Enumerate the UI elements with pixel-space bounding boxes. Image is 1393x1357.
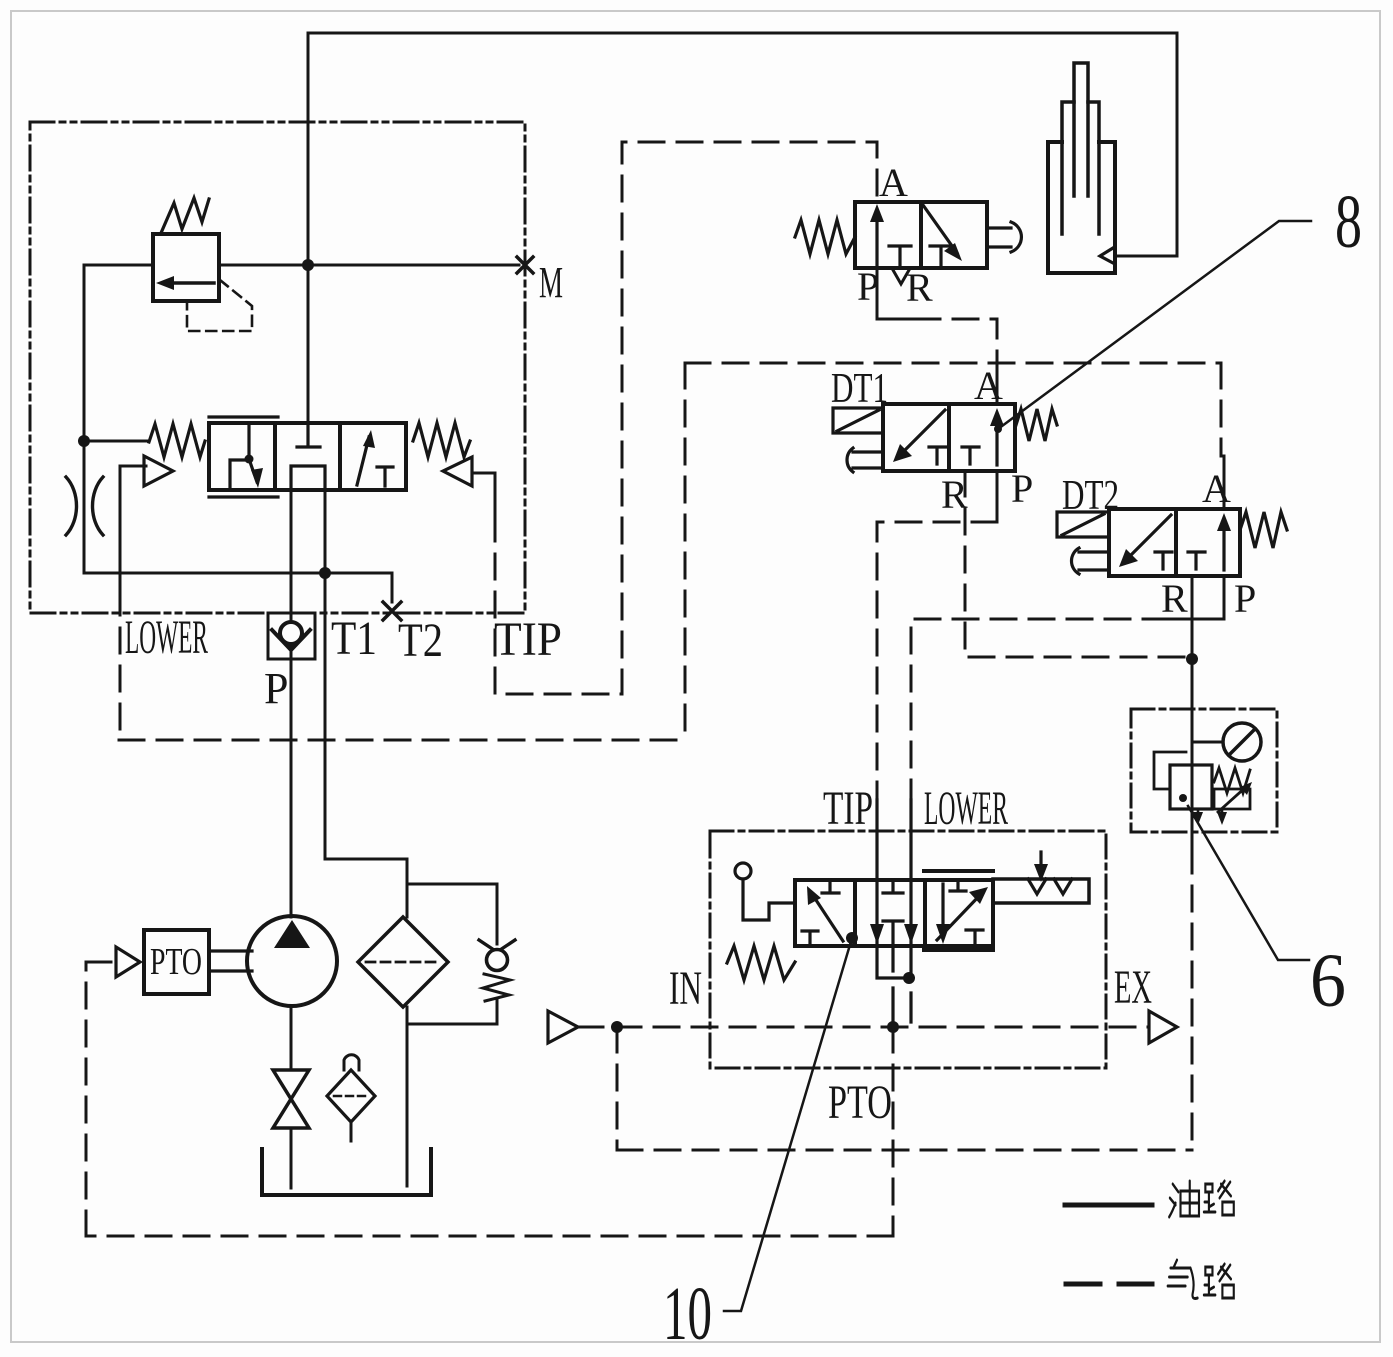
node junction T1 header (319, 567, 331, 579)
wire: leader line of label 10 (724, 938, 852, 1311)
valve 10 detent notches (1028, 879, 1072, 894)
DT1 manual override button (847, 448, 883, 472)
legend solid oil-line sample (1065, 1203, 1152, 1208)
hand valve 8 body (855, 202, 987, 268)
svg-text:A: A (1202, 466, 1231, 511)
gas line: relief valve pilot loop (187, 280, 252, 331)
valve 10 body (795, 880, 993, 946)
gas line: DT1 big dashed box left edge (684, 363, 687, 740)
svg-text:M: M (539, 258, 563, 307)
pump outlet triangle (274, 920, 310, 948)
DT1 return spring (1016, 409, 1057, 441)
wire: leader line of label 6 (1188, 806, 1309, 960)
relief valve internal arrow (170, 281, 214, 285)
gas line: DT1 big dashed box right edge (1220, 363, 1223, 456)
svg-text:PTO: PTO (828, 1076, 892, 1129)
breather diamond (327, 1070, 375, 1122)
DT1 P port stub (996, 471, 999, 522)
valve 10 return spring (727, 946, 795, 980)
svg-text:R: R (906, 265, 933, 310)
needle plug T2 cross (383, 602, 401, 620)
main valve position underline (209, 495, 278, 498)
breather dashed line (334, 1095, 368, 1098)
node leader-10 dot (846, 932, 858, 944)
cylinder port arrow (1100, 248, 1113, 263)
node junction PTO air (887, 1021, 899, 1033)
main valve right section blocked T (377, 467, 393, 486)
boundary: oil unit dash-dot box (30, 122, 525, 613)
wire: LOWER pilot solid part (120, 466, 146, 590)
relief valve body (153, 234, 219, 301)
valve 10 down arrow on TIP line (870, 924, 884, 944)
regulator 6 gauge branch line (1192, 741, 1223, 744)
solenoid valve DT2 body (1109, 509, 1240, 576)
valve 10 port drops to junction (877, 946, 911, 978)
check valve P seat (272, 630, 310, 650)
node regulator small dot (1179, 794, 1187, 802)
test point M cross (517, 257, 533, 273)
svg-text:DT2: DT2 (1062, 473, 1119, 519)
regulator 6 through line (1191, 604, 1194, 848)
valve 10 center port stub (891, 946, 894, 971)
DT2 left box diagonal arrow (1126, 515, 1171, 560)
wire: return header to T1 and T2 (84, 573, 392, 602)
DT1 blocked T marks (929, 447, 979, 464)
valve 10 detent extension (993, 879, 1089, 903)
main valve left section spool paths (230, 424, 257, 489)
regulator 6 valve body (1170, 765, 1212, 809)
check valve P body (268, 613, 315, 659)
node junction left drop / spring line (78, 435, 90, 447)
valve 10 right section diagonal arrow (937, 894, 981, 940)
hand valve flow arrow A-P (875, 214, 878, 266)
wire: main pressure riser into valve center (307, 33, 310, 423)
hand valve push button actuator (987, 222, 1021, 252)
quick coupler on left return line (66, 477, 103, 535)
wire: filter bottom to tank (406, 1007, 409, 1186)
hand valve right box diagonal arrow (923, 205, 957, 253)
wire: left return drop line (83, 265, 86, 573)
svg-text:R: R (941, 472, 968, 517)
valve 10 position bar top (924, 869, 993, 873)
svg-text:TIP: TIP (823, 782, 873, 835)
DT2 A port line up (1223, 456, 1226, 509)
gas line: TIP pilot dashed to riser (495, 142, 877, 694)
DT1 left box diagonal arrow (900, 410, 945, 455)
hand valve return spring (795, 220, 855, 254)
main valve center section chamber (291, 466, 325, 490)
svg-text:P: P (264, 664, 288, 713)
pump drive shaft (209, 951, 252, 971)
regulator 6 adjust box with arrow (1214, 789, 1250, 809)
main valve center section blocked T (297, 423, 320, 447)
node junction IN (611, 1021, 623, 1033)
valve 10 right section down arrow (941, 884, 944, 928)
hand valve P port stub (877, 268, 917, 319)
node valve10 port junction (903, 972, 915, 984)
wire: filter bypass to check valve (407, 884, 497, 1024)
node junction DT2-R / regulator (1186, 653, 1198, 665)
svg-text:10: 10 (663, 1272, 712, 1356)
svg-text:R: R (1161, 576, 1188, 621)
DT2 manual override button (1071, 548, 1109, 574)
main directional valve body (209, 423, 406, 490)
svg-text:A: A (974, 363, 1003, 408)
gas line: DT1 R port line (965, 471, 1185, 657)
svg-text:LOWER: LOWER (125, 611, 208, 664)
valve 10 position bar bottom (924, 948, 993, 952)
main valve position overline (209, 415, 278, 418)
valve 10 left section T marks (802, 880, 839, 946)
regulator 6 gauge circle with slash (1223, 723, 1261, 761)
wire: top oil line from main valve to cylinder (308, 33, 1177, 256)
valve 10 lever knob (735, 863, 751, 879)
wire: pump suction to shutoff valve to tank (290, 1007, 293, 1188)
bypass check valve seat (479, 940, 515, 952)
svg-text:6: 6 (1310, 939, 1346, 1023)
hand valve blocked T left box (889, 246, 911, 266)
svg-text:IN: IN (669, 962, 702, 1015)
gas line: PTO air line down and left (86, 962, 893, 1236)
filter mesh dashed line (366, 961, 440, 964)
svg-text:8: 8 (1335, 180, 1362, 264)
telescopic cylinder outer barrel (1048, 142, 1115, 273)
telescopic cylinder rod (1074, 63, 1088, 196)
svg-text:P: P (1234, 576, 1256, 621)
valve 10 down arrow on LOWER line (904, 924, 918, 944)
wire: relief valve left port (84, 264, 153, 267)
gas line: bottom air header (617, 1149, 1192, 1152)
PTO input box (144, 930, 209, 994)
DT2 P port stub (1168, 576, 1224, 619)
tank (262, 1149, 431, 1195)
DT1 solenoid box (833, 408, 883, 433)
gas line: IN to EX air line through valve 10 (578, 1026, 1149, 1029)
svg-text:EX: EX (1114, 961, 1152, 1014)
valve 10 left section arrow (812, 894, 843, 941)
legend glyphs 气路 (gas line) (1168, 1260, 1234, 1299)
main valve right pilot triangle (443, 457, 472, 486)
wire: TIP pilot solid part (472, 473, 495, 516)
hand valve exhaust vee (893, 270, 909, 284)
pump circle (247, 916, 337, 1006)
svg-text:P: P (1011, 466, 1033, 511)
regulator 6 drain arrows (1198, 809, 1222, 816)
gas line: DT2 P port to valve10 LOWER riser (911, 619, 1168, 800)
DT1 A flow arrow (995, 418, 998, 465)
regulator 6 pilot step line (1154, 752, 1186, 789)
gas line: regulator 6 down to bottom air header (1191, 848, 1194, 1150)
wire: T1 line valve to filter (325, 490, 407, 917)
DT2 solenoid box (1057, 512, 1109, 537)
EX outlet triangle (1149, 1011, 1177, 1043)
gas line: DT1 big dashed box bottom edge to LOWER box (119, 739, 685, 742)
gas line: IN junction down leg (616, 1027, 619, 1150)
node leader-8 dot (994, 425, 1002, 433)
svg-text:T1: T1 (331, 612, 377, 665)
valve 10 LOWER through line (909, 800, 912, 946)
valve 10 center section H ports (883, 880, 903, 946)
DT2 blocked T marks (1155, 552, 1205, 569)
gas line: LOWER pilot dashed continuation (119, 590, 122, 740)
gas line: hand valve P to DT1 A (877, 319, 997, 404)
svg-text:TIP: TIP (494, 613, 562, 666)
valve 10 right section T marks (950, 880, 983, 946)
valve 10 lever linkage (743, 879, 793, 920)
shutoff valve bowtie (273, 1070, 309, 1099)
valve 10 port links to PTO air junction (893, 988, 911, 1027)
bypass check valve spring (483, 974, 510, 1001)
bypass check valve ball (487, 950, 508, 971)
svg-text:T2: T2 (398, 614, 443, 667)
svg-text:LOWER: LOWER (924, 782, 1008, 835)
wire: leader line of label 8 (998, 221, 1311, 429)
regulator 6 spring (1214, 768, 1250, 793)
breather cap (344, 1055, 359, 1070)
IN inlet triangle (548, 1011, 578, 1043)
wire: relief valve outlet to M test point (219, 264, 519, 267)
main valve left pilot triangle (144, 456, 173, 486)
main valve right section spool arrow (357, 437, 369, 485)
valve 10 TIP through line (875, 800, 878, 946)
check valve P ball (280, 622, 302, 644)
svg-text:P: P (857, 264, 879, 309)
gas line: DT1 P port to valve10 TIP riser (877, 522, 997, 800)
legend dashed gas-line sample (1066, 1282, 1152, 1287)
filter diamond (358, 917, 448, 1007)
main valve left spring (149, 424, 205, 457)
gas line: DT2 R port down to junction (1191, 579, 1194, 604)
main valve right spring (413, 423, 470, 457)
svg-text:A: A (879, 160, 908, 205)
svg-text:PTO: PTO (150, 941, 202, 983)
valve 10 detent arrow (1039, 852, 1042, 868)
DT2 A flow arrow (1222, 523, 1225, 570)
boundary: valve 10 dash-dot box (710, 831, 1106, 1068)
telescopic cylinder middle stage (1062, 102, 1099, 234)
svg-text:DT1: DT1 (831, 366, 888, 412)
relief valve spring (161, 198, 209, 233)
legend glyphs 油路 (oil line) (1169, 1181, 1234, 1217)
boundary: regulator 6 dash-dot box (1131, 709, 1277, 832)
wire: line to main valve left spring (84, 440, 149, 443)
DT1 A riser solid segment (996, 375, 999, 404)
node junction relief/riser (302, 259, 314, 271)
solenoid valve DT1 body (883, 404, 1015, 471)
wire: P line valve to check valve to pump (290, 490, 293, 917)
DT2 return spring (1240, 512, 1287, 548)
wire: breather stem (350, 1122, 353, 1141)
PTO inlet triangle (116, 947, 140, 977)
hand valve blocked T right box (930, 246, 952, 266)
gas line: DT1 big dashed box top edge (685, 362, 1221, 365)
